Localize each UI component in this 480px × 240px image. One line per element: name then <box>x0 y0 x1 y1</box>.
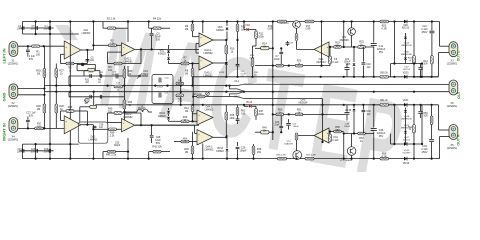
capacitor C29 vertical <box>237 142 239 146</box>
resistor R47 vertical <box>255 106 257 108</box>
resistor R34 vertical <box>123 100 126 109</box>
diode VD3 <box>226 22 228 27</box>
wire bottom inner rail <box>23 143 79 145</box>
cap row top y79.9 <box>69 75 124 77</box>
wire bottom supply rail <box>23 158 440 160</box>
wire DB1.1 feedback loop <box>61 119 65 121</box>
vertical x390.6 <box>390 64 392 77</box>
diode pair VD11 VD12 <box>168 108 170 110</box>
transistor VT4 <box>351 134 353 147</box>
resistor R7 <box>181 62 189 65</box>
resistor R30 on bus B1 <box>114 85 123 88</box>
svg-text:R42 22k: R42 22k <box>152 146 162 149</box>
svg-text:R170.8R: R170.8R <box>306 26 311 31</box>
svg-text:R3 2.2k: R3 2.2k <box>107 18 116 21</box>
bottom row wire of top channel <box>255 65 330 67</box>
svg-text:-: - <box>200 42 201 45</box>
svg-text:R61 2k: R61 2k <box>380 100 388 102</box>
capacitor C4 <box>48 26 50 30</box>
svg-text:-: - <box>327 138 328 141</box>
svg-text:-: - <box>198 120 199 123</box>
bus B1 ground <box>44 85 229 87</box>
resistor R50 <box>276 113 284 116</box>
wire to speaker connector top <box>440 45 450 47</box>
resistor R3 on rail <box>108 27 116 30</box>
capacitor C41 <box>288 119 290 123</box>
vertical x193.2 <box>192 77 194 105</box>
resistor R43 <box>181 120 189 123</box>
long vertical x50 <box>49 34 51 144</box>
resistor R6 feedback <box>114 62 122 65</box>
wire vertical x70 bottom <box>69 144 71 159</box>
wire pocket right leg <box>94 64 96 70</box>
svg-text:LEFT IN: LEFT IN <box>2 48 7 63</box>
wire vertical x70 <box>69 22 71 35</box>
capacitor C30 <box>280 129 282 133</box>
diode VD5 vertical <box>353 47 355 62</box>
resistor R41 below <box>108 150 116 153</box>
svg-text:-: - <box>200 65 201 68</box>
diode VD6 on rail <box>404 20 407 24</box>
wire VT3 to rail <box>295 158 297 160</box>
row y114.4 wire <box>273 113 345 115</box>
electrolytic C20 <box>158 78 160 83</box>
capacitor C27 <box>27 123 29 129</box>
vertical x343.75 bottom <box>343 134 345 159</box>
wire feedback up bottom <box>122 112 141 114</box>
wire feedback to output bottom <box>74 110 87 112</box>
capacitor C2 <box>22 26 24 30</box>
svg-text:R54 0.5R: R54 0.5R <box>306 155 316 157</box>
long vertical x56.3 <box>55 64 57 129</box>
svg-text:R160.8R: R160.8R <box>268 26 273 31</box>
wire op-amp DA1.1 output <box>81 49 94 51</box>
svg-text:GND: GND <box>2 92 7 101</box>
svg-text:-: - <box>123 127 124 130</box>
relay contact K1.2 arm <box>230 97 244 99</box>
op-amp DB1.1 <box>64 116 81 134</box>
resistor R11 vertical <box>237 22 239 25</box>
wire DA2.1 feedback <box>108 51 122 53</box>
long vertical x70.3 <box>69 34 71 159</box>
capacitor C6 10uF <box>151 28 153 33</box>
cap row bottom y96.8 <box>69 96 124 98</box>
bus B2 ground <box>44 91 449 93</box>
diode VD23 vertical <box>225 62 228 64</box>
electro cap C40 lower right <box>420 105 422 111</box>
vertical x422 right loop <box>421 64 423 77</box>
capacitor C32 vertical <box>362 105 364 110</box>
wire pocket left leg <box>76 64 78 70</box>
trimmer R49 <box>261 131 269 134</box>
wire DA2.1 output <box>135 48 199 50</box>
vertical x414 <box>413 22 415 56</box>
bottom of right loop <box>414 76 439 78</box>
diode chain vertical top <box>405 33 407 36</box>
capacitor C18 <box>99 95 101 99</box>
wire DB2.1 feedback <box>108 122 122 124</box>
svg-text:R584.3R: R584.3R <box>381 153 387 159</box>
wire DB5 plus input <box>329 131 334 133</box>
resistor R12 vertical <box>255 30 257 32</box>
wire DA3.1 input <box>193 36 200 38</box>
op-amp DB3 lower <box>197 130 213 146</box>
resistor R53 on bottom rail <box>278 157 287 160</box>
resistor R40 feedback <box>114 112 122 115</box>
wire DB4 plus input <box>193 113 198 115</box>
trimmer R31 <box>88 68 95 71</box>
connector X2 GND <box>9 84 18 99</box>
wire to speaker2 top <box>439 129 450 131</box>
capacitor C1 <box>27 46 29 49</box>
snubber cap C12 <box>431 22 433 31</box>
svg-text:-: - <box>65 53 66 56</box>
wire bottom rail end up <box>439 137 441 159</box>
vertical x322.5 bottom <box>322 105 324 142</box>
svg-text:OUT L: OUT L <box>457 50 461 62</box>
electrolytic C21 <box>158 93 160 98</box>
svg-text:R29 3.48: R29 3.48 <box>192 94 202 96</box>
resistor R35 <box>176 82 184 85</box>
svg-text:-: - <box>123 51 124 54</box>
wire DA3.2 output <box>213 62 226 64</box>
electro cap C22 mid right <box>346 70 348 77</box>
svg-text:VD4: VD4 <box>245 24 250 27</box>
svg-text:-: - <box>327 52 328 55</box>
electro cap C23 mid right <box>420 70 422 77</box>
svg-text:VD14: VD14 <box>246 101 253 104</box>
op-amp DA3.2 lower <box>199 56 213 70</box>
resistor R26 vertical <box>43 104 46 113</box>
resistor R39 <box>108 128 116 131</box>
wire gnd top <box>18 88 45 90</box>
wire out top <box>448 83 450 85</box>
vertical x343.75 <box>343 22 345 48</box>
connector X4 RIGHT IN <box>9 118 18 133</box>
watermark text <box>92 1 412 206</box>
wire DB5 output left <box>297 135 315 137</box>
resistor R24 vertical <box>431 56 434 65</box>
svg-text:OUT: OUT <box>457 90 461 99</box>
capacitor C14 <box>89 74 91 78</box>
svg-text:R4 22k: R4 22k <box>153 18 162 21</box>
resistor R61 on bus B3 <box>380 104 389 107</box>
vertical rail drop x192 top <box>192 22 194 25</box>
wire feedback to output <box>74 63 87 65</box>
transistor VT3 <box>293 151 302 160</box>
transistor VT1 <box>293 21 301 29</box>
resistor R4 on rail <box>153 27 161 30</box>
op-amp DB4 upper <box>197 110 213 125</box>
electro cap C39 lower mid right <box>346 105 348 112</box>
wire base row y47 <box>344 46 374 48</box>
resistor R33 vertical <box>123 69 126 78</box>
wire cap ladder vertical left <box>22 22 24 35</box>
wire base row y133.5 <box>344 133 374 135</box>
vertical x321.5 <box>321 22 323 66</box>
vertical x180.7 <box>180 77 182 105</box>
resistor R56 vertical <box>329 132 331 135</box>
svg-text:OUT R: OUT R <box>457 134 461 146</box>
diode VD15 vertical <box>353 105 355 108</box>
resistor R2 feedback <box>66 62 74 65</box>
resistor R21 vertical <box>329 47 331 56</box>
svg-text:R60 2k: R60 2k <box>380 73 388 75</box>
wire R5 to DA2.1 <box>93 44 108 46</box>
op-amp DB5 power <box>314 128 329 143</box>
diode VD13 <box>226 147 228 149</box>
snubber cap C34 <box>431 105 433 116</box>
LED VD14 <box>243 105 245 107</box>
capacitor C25 <box>35 149 37 153</box>
svg-text:VD15: VD15 <box>345 109 352 112</box>
svg-text:VD21: VD21 <box>403 100 409 102</box>
wire trimmer R32 feed <box>93 92 95 106</box>
bus B3 lower <box>95 104 438 106</box>
long vertical x44.4 <box>43 46 45 128</box>
output capacitor C11 2200uF <box>373 22 375 43</box>
wire DB1.1 output <box>81 124 94 126</box>
wire right input <box>18 127 64 129</box>
resistor R51 <box>295 113 303 116</box>
wire DB2.1 output <box>135 124 199 126</box>
diode VD16 on bottom rail <box>404 157 407 161</box>
wire top inner rail <box>23 33 79 35</box>
wire rail end down <box>439 22 441 47</box>
resistor R19 <box>276 64 284 67</box>
wire bottom cap ladder verticals <box>22 144 24 159</box>
resistor R20 <box>295 64 303 67</box>
resistor R42 below <box>153 150 161 153</box>
svg-text:C101uF: C101uF <box>366 63 371 69</box>
bus A y76.8 <box>193 76 438 78</box>
capacitor C3 <box>35 26 37 30</box>
rail riser x128 bottom <box>127 138 129 159</box>
wire x322 drop to bus <box>322 99 324 105</box>
wire left input <box>18 45 64 47</box>
wire trimmer R32 left <box>80 106 90 108</box>
wire diode row y144 <box>391 143 422 145</box>
resistor R23 on rail right <box>380 20 389 23</box>
wire R39 to DB2.1 <box>93 128 108 130</box>
capacitor C37 vertical <box>237 40 239 64</box>
resistor R28 vertical <box>55 104 58 113</box>
wire feedback up to output <box>122 63 141 65</box>
indicator dot on wire <box>81 63 84 66</box>
resistor R17 on rail <box>305 20 314 23</box>
vertical x394.4 <box>393 22 395 64</box>
op-amp DA2.1 <box>122 43 135 56</box>
wire DB3 output <box>213 136 226 138</box>
vertical x390.6 bottom <box>390 134 392 145</box>
svg-text:100uF: 100uF <box>157 87 164 89</box>
wire r44 down <box>192 114 194 122</box>
diode VD21 on bus B3 <box>404 103 407 107</box>
resistor R37 <box>35 127 43 130</box>
test point TP1 <box>206 92 210 96</box>
capacitor C10 vertical <box>362 47 364 62</box>
wire gnd bottom <box>18 94 45 96</box>
junction dots bottom ladder <box>35 143 37 145</box>
resistor R57 <box>358 132 366 135</box>
diode chain vertical bottom <box>405 108 407 110</box>
resistor R62 vertical <box>237 105 239 108</box>
diode VD20 on bus A <box>404 75 407 79</box>
vertical x414 bottom <box>413 105 415 125</box>
resistor R60 on bus A <box>380 76 389 79</box>
connector X5 SPEAKER R <box>449 125 458 140</box>
transistor VT2 <box>351 22 353 29</box>
op-amp DA3.1 upper <box>199 33 213 47</box>
capacitor C8 small <box>286 42 290 44</box>
capacitor C36 inside box <box>93 125 97 127</box>
wire x202 riser <box>202 144 204 159</box>
resistor R25 vertical <box>43 69 46 78</box>
vertical x394.4 bottom <box>393 105 395 144</box>
op-amp DA1.1 <box>64 41 81 59</box>
resistor R48 vertical <box>252 146 255 155</box>
wire DA3.1 minus <box>196 42 199 44</box>
electrolytic C16 <box>115 74 117 79</box>
relay contact K1.1 lower throw <box>230 86 244 92</box>
diode pair VD1 VD2 <box>168 45 170 50</box>
wire diode branch <box>168 44 170 46</box>
resistor R16 on rail <box>278 20 287 23</box>
svg-text:R392.2k: R392.2k <box>110 132 115 138</box>
wire signal into DB3 <box>135 124 195 126</box>
capacitor C5 on output branch <box>86 59 90 61</box>
capacitor C28 bottom <box>151 125 153 135</box>
resistor R22 <box>358 46 366 49</box>
wire R43 row <box>169 120 182 122</box>
resistor R38 feedback <box>66 110 74 113</box>
svg-text:-: - <box>198 140 199 143</box>
resistor R1 <box>32 45 40 48</box>
trimmer R32 <box>90 105 97 108</box>
wire cap ladder vertical mid <box>35 22 37 35</box>
vertical x124.4 with resistors <box>123 66 125 128</box>
svg-text:K1.1: K1.1 <box>234 80 240 83</box>
resistor R27 vertical <box>55 69 58 78</box>
junction input node <box>27 45 29 47</box>
svg-text:VD20: VD20 <box>403 73 409 75</box>
resistor R29 relay feed <box>197 95 205 98</box>
resistor R13 vertical <box>253 45 257 47</box>
svg-text:VT4 2SB649: VT4 2SB649 <box>340 160 353 162</box>
capacitor C24 <box>22 149 24 153</box>
resistor R55 <box>334 130 342 133</box>
wire cap ladder vertical right <box>49 22 51 35</box>
wire top supply rail <box>23 21 440 23</box>
vertical x93.4 bottom <box>92 125 94 159</box>
resistor R52 vertical small <box>295 133 298 140</box>
wire top pocket y64.4 <box>77 63 95 65</box>
rail drop x128 <box>127 22 129 43</box>
long vertical x272.8 upper <box>272 22 274 66</box>
vertical x422 right loop bottom <box>421 105 423 144</box>
LED VD4 <box>243 22 245 30</box>
resistor R63 <box>181 140 189 143</box>
resistor R46 vertical <box>225 105 227 112</box>
svg-text:-: - <box>65 128 66 131</box>
output capacitor C33 2200uF <box>373 105 375 128</box>
junction dots cap ladder <box>35 20 37 22</box>
wire DA1.1 feedback loop <box>61 53 65 55</box>
trimmer R14 <box>261 46 269 49</box>
capacitor C26 <box>48 149 50 153</box>
IC outline box DA2 <box>78 122 108 143</box>
vertical x192 with resistor R44 <box>192 105 194 114</box>
indicator circle <box>85 98 89 102</box>
svg-text:VD16: VD16 <box>403 162 410 165</box>
resistor R10 vertical <box>225 40 227 45</box>
svg-text:C321uF: C321uF <box>366 110 371 116</box>
wire trimmer row bottom <box>255 131 261 133</box>
wire trimmer R31 lead <box>84 70 88 72</box>
long vertical x272.8 lower <box>272 66 274 140</box>
capacitor C17 <box>89 95 91 99</box>
vertical x192 with resistor R8 <box>192 64 194 69</box>
resistor R54 on bottom rail <box>305 157 314 160</box>
wire DA4 output left <box>297 48 315 50</box>
capacitor C34 bars <box>431 125 433 140</box>
wire to speaker connector bottom <box>439 52 450 54</box>
wire to speaker2 bottom <box>440 136 450 138</box>
vertical x192 bottom resistor R45 <box>192 132 194 159</box>
wire relay2 feed <box>193 96 197 98</box>
junction input node bottom <box>27 127 29 129</box>
capacitor box K with two electrolytics <box>152 75 173 104</box>
svg-text:RIGHT IN: RIGHT IN <box>2 123 7 141</box>
wire bottom cap row <box>20 150 54 152</box>
wire DA3.1 output <box>213 39 226 41</box>
svg-text:R2410R: R2410R <box>423 61 428 66</box>
svg-text:R41 2.2k: R41 2.2k <box>106 154 117 157</box>
diode VD17 <box>404 142 407 146</box>
resistor R18 <box>334 46 342 49</box>
wire cap row horizontal <box>20 27 54 29</box>
capacitor C15 <box>99 74 101 78</box>
svg-text:R5910R: R5910R <box>423 113 428 118</box>
wire inductor leads <box>124 111 137 113</box>
wire DA4 plus input <box>329 46 334 48</box>
trim capacitor C19 <box>138 74 142 76</box>
svg-text:R234.3R: R234.3R <box>381 25 387 31</box>
svg-text:VD23: VD23 <box>219 72 225 74</box>
op-amp DB2.1 <box>122 119 135 132</box>
wire diode row y63.5 <box>391 63 422 65</box>
connector X1 LEFT IN <box>9 42 18 57</box>
resistor R58 on bottom rail <box>380 157 389 160</box>
connector X6 OUT <box>449 80 458 95</box>
svg-text:R53 0.5R: R53 0.5R <box>276 155 286 157</box>
connector X3 SPEAKER L <box>449 42 458 57</box>
capacitor C7 <box>280 48 282 51</box>
resistor R15 vertical small <box>295 34 298 41</box>
wire R7 row <box>169 63 182 65</box>
vertical from rail to R5 <box>92 22 94 51</box>
resistor R36 <box>176 94 184 97</box>
op-amp DA4 power <box>314 42 329 57</box>
wire trim cap row <box>128 75 135 77</box>
resistor R5 <box>108 44 116 47</box>
wire trimmer row <box>255 47 261 49</box>
